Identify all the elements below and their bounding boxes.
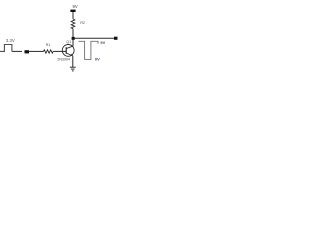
transistor Q1 collector diagonal bbox=[66, 46, 73, 49]
svg-text:2N3904: 2N3904 bbox=[57, 58, 70, 62]
svg-text:9V: 9V bbox=[100, 40, 105, 45]
svg-text:R1: R1 bbox=[46, 43, 51, 47]
wire input to junction bbox=[12, 50, 22, 52]
pulse source V1 input waveform glyph bbox=[0, 45, 12, 52]
resistor R1 bbox=[44, 50, 54, 53]
svg-text:R2: R2 bbox=[80, 21, 85, 25]
wire R2 to supply bar bbox=[72, 12, 74, 19]
wire junction to R1 bbox=[29, 50, 44, 52]
node square junction bbox=[25, 50, 30, 53]
junction dot collector node bbox=[72, 37, 75, 40]
output waveform glyph bbox=[79, 41, 99, 59]
wire emitter down to ground bbox=[72, 56, 74, 67]
supply rail bar 9V bbox=[70, 10, 75, 12]
wire collector up to R2 bbox=[72, 29, 74, 47]
transistor Q1 circle bbox=[62, 45, 74, 57]
emitter arrowhead bbox=[70, 54, 73, 56]
transistor Q1 base bar bbox=[65, 47, 67, 54]
svg-text:3.3V: 3.3V bbox=[6, 38, 15, 43]
output terminal square bbox=[114, 37, 118, 40]
svg-text:9V: 9V bbox=[73, 4, 78, 9]
wire R1 to base bbox=[53, 50, 66, 52]
ground symbol bbox=[70, 66, 76, 68]
svg-text:0V: 0V bbox=[95, 57, 100, 62]
resistor R2 vertical bbox=[71, 19, 75, 29]
svg-text:Q1: Q1 bbox=[66, 40, 71, 44]
background bbox=[0, 0, 120, 77]
wire collector node to output terminal bbox=[75, 37, 114, 39]
transistor Q1 emitter diagonal with arrow bbox=[66, 53, 73, 56]
